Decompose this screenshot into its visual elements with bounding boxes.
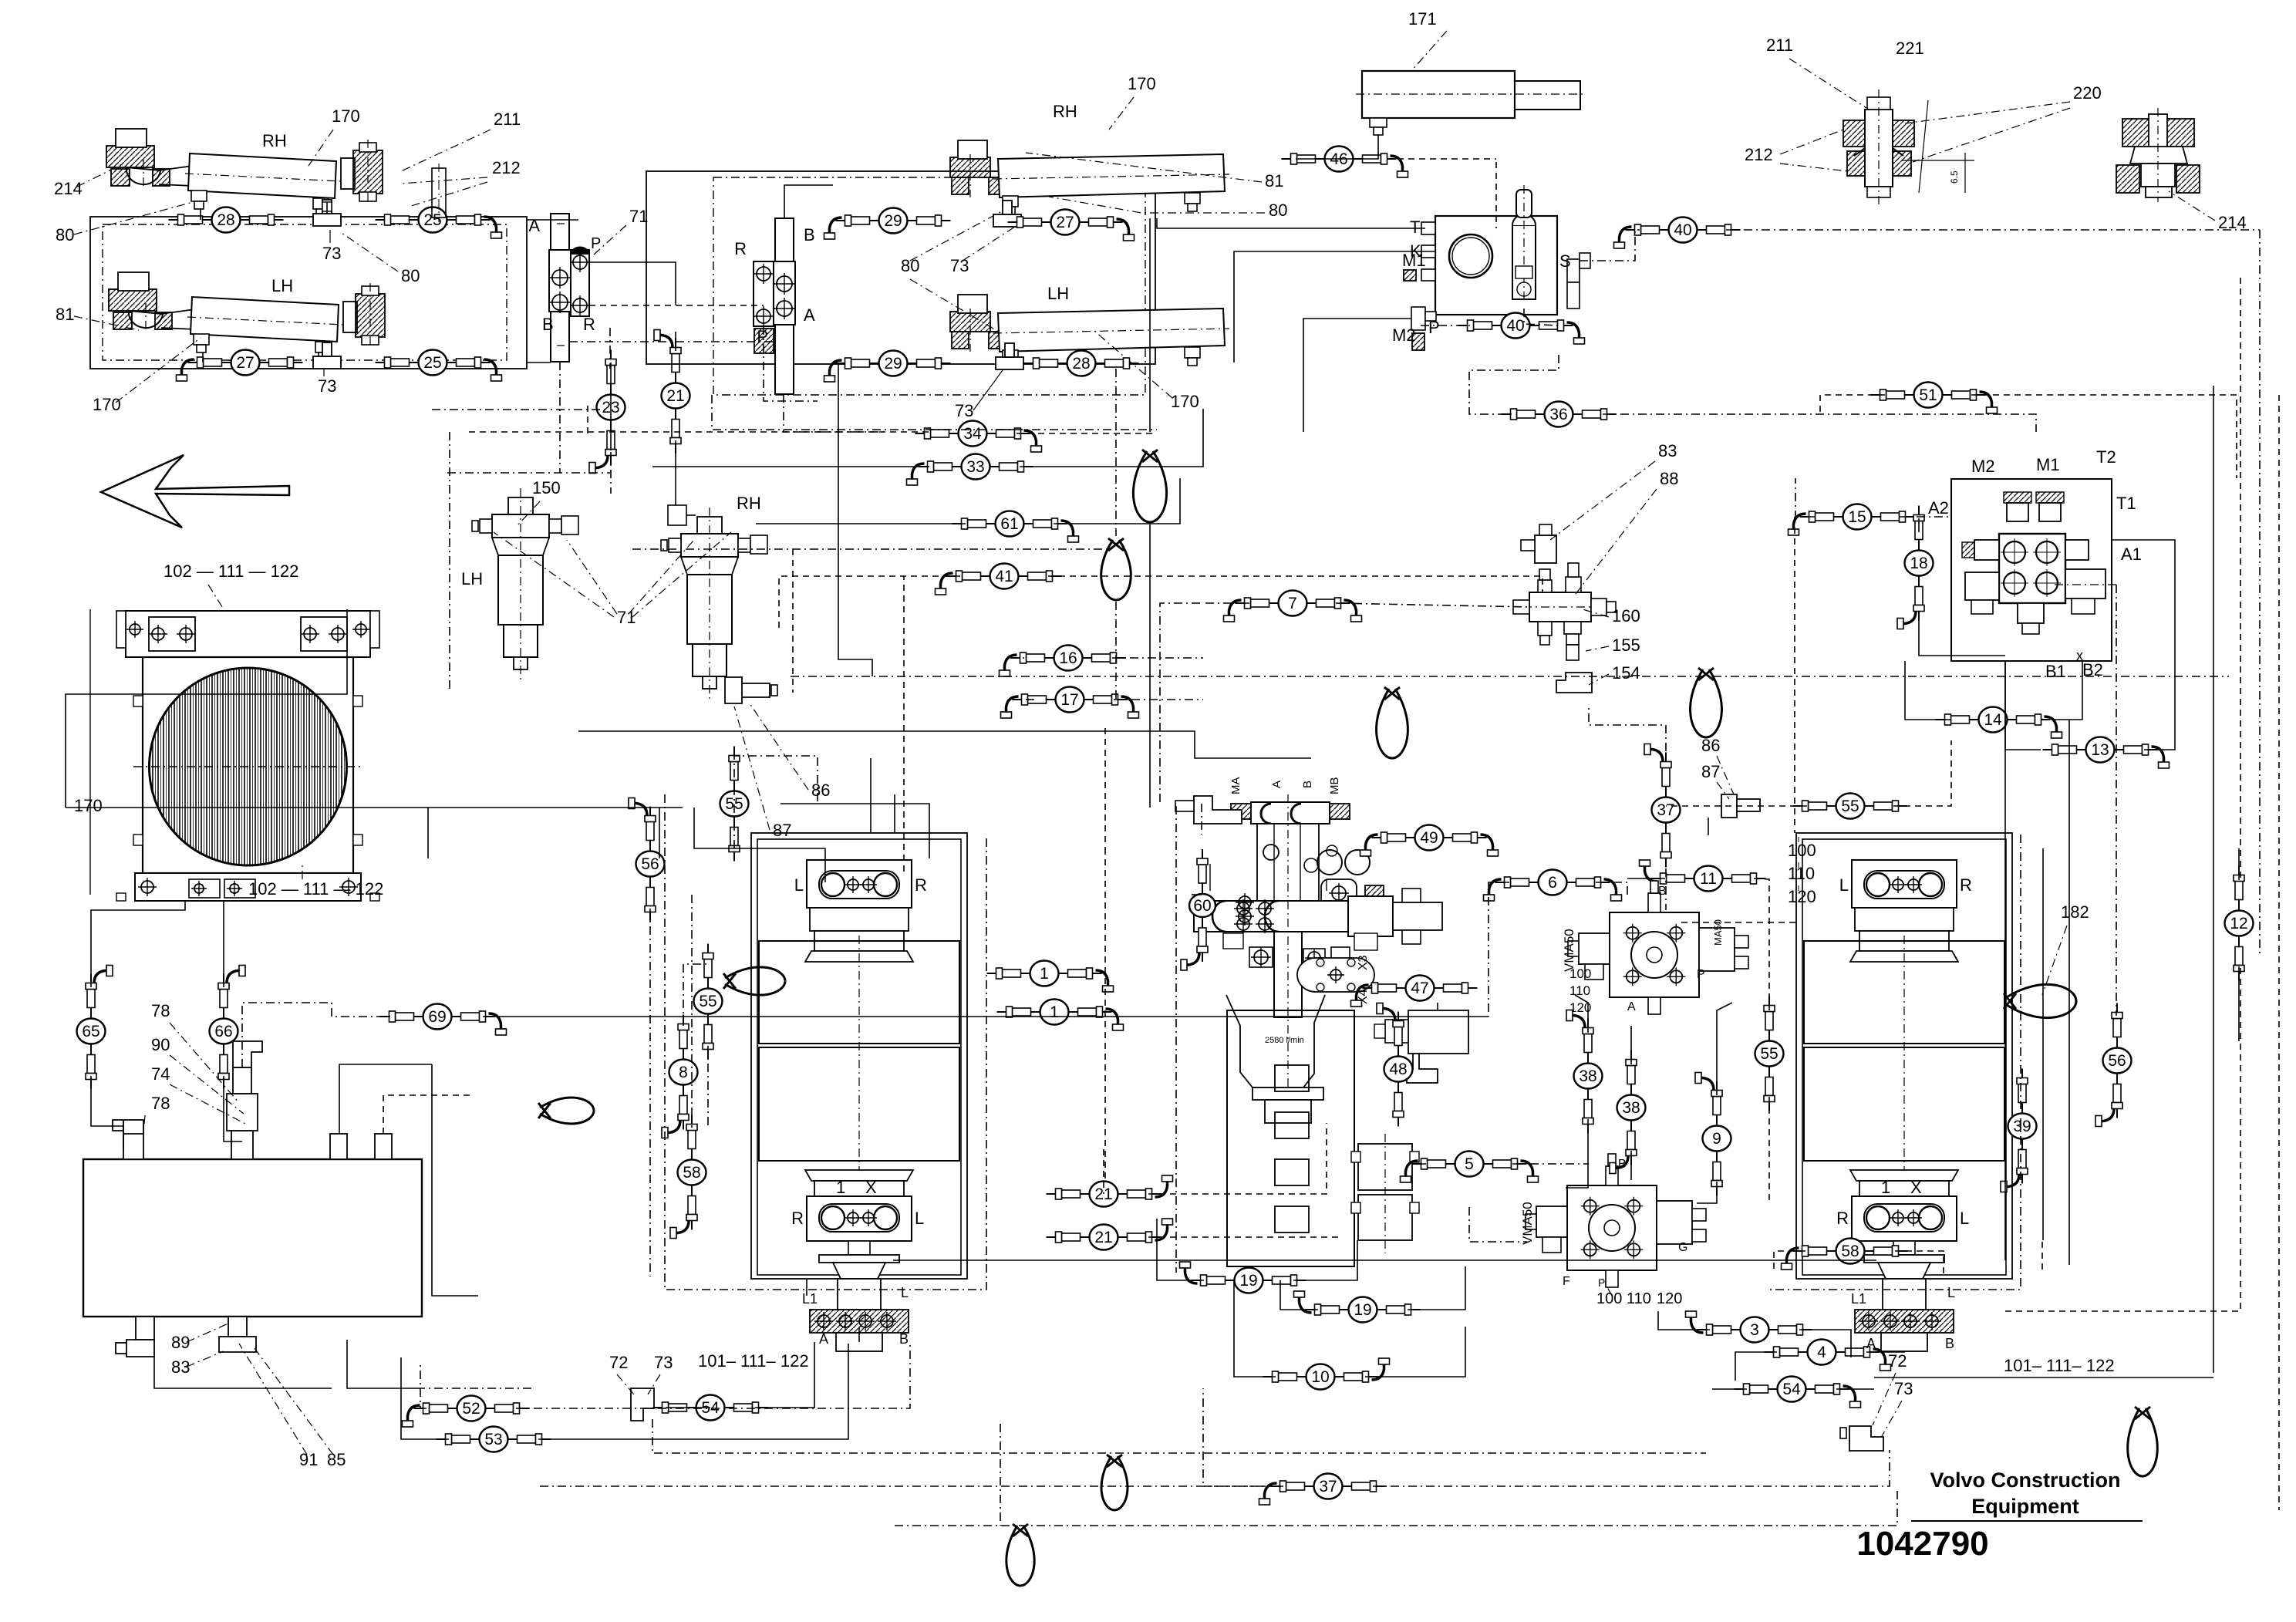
svg-text:80: 80: [56, 225, 74, 244]
svg-text:L: L: [901, 1285, 909, 1300]
hose 47: [1351, 976, 1478, 1007]
svg-text:120: 120: [1657, 1290, 1682, 1307]
svg-text:A: A: [528, 216, 540, 235]
hose 1b: [997, 1000, 1124, 1031]
hose 5: [1401, 1152, 1539, 1183]
svg-text:49: 49: [1420, 829, 1438, 847]
hose 33: [907, 454, 1033, 486]
hose 27 middle: [1008, 210, 1135, 241]
svg-text:P: P: [1428, 318, 1440, 337]
hose 49: [1360, 825, 1499, 857]
svg-text:R: R: [734, 239, 747, 258]
svg-text:21: 21: [1094, 1229, 1112, 1246]
svg-text:M2: M2: [1392, 325, 1416, 345]
svg-text:87: 87: [1701, 762, 1720, 781]
svg-text:33: 33: [966, 458, 984, 476]
svg-text:G: G: [1678, 1241, 1687, 1254]
hose 54 right: [1735, 1377, 1861, 1408]
svg-text:15: 15: [1848, 508, 1866, 526]
svg-text:58: 58: [1841, 1243, 1859, 1260]
hose 56 left: [629, 798, 665, 922]
svg-text:91: 91: [299, 1450, 318, 1469]
svg-text:1: 1: [1040, 965, 1049, 983]
svg-text:48: 48: [1389, 1061, 1407, 1078]
svg-text:21: 21: [666, 387, 684, 405]
svg-text:L: L: [1839, 875, 1849, 895]
svg-text:81: 81: [1265, 171, 1283, 191]
hose 46: [1282, 147, 1408, 178]
svg-text:155: 155: [1612, 636, 1640, 655]
hose 60: [1194, 796, 1242, 824]
svg-text:L1: L1: [1851, 1291, 1866, 1307]
svg-text:28: 28: [1072, 355, 1090, 373]
hose 6: [1484, 870, 1622, 902]
svg-text:LH: LH: [271, 276, 293, 295]
hose 34: [915, 421, 1042, 453]
svg-text:87: 87: [773, 821, 791, 840]
svg-text:18: 18: [1910, 555, 1927, 572]
hose 28 middle: [1024, 351, 1139, 376]
steering unit: [1392, 185, 1590, 350]
svg-text:VMA50: VMA50: [1562, 929, 1576, 972]
center assembly extra detail: [1239, 896, 1251, 909]
hose 53: [437, 1427, 551, 1452]
svg-text:B1: B1: [2045, 662, 2066, 681]
cable loop I: [1006, 1524, 1034, 1586]
hose 11: [1640, 860, 1766, 892]
svg-text:170: 170: [1128, 74, 1156, 93]
svg-text:T1: T1: [2116, 494, 2136, 513]
svg-text:LH: LH: [461, 569, 483, 588]
svg-text:81: 81: [56, 305, 74, 324]
svg-text:19: 19: [1239, 1272, 1257, 1290]
port stubs top-left cylinders: [200, 208, 201, 220]
svg-text:P: P: [1697, 968, 1705, 981]
VMA50 upper pump: [1568, 881, 1748, 1014]
svg-text:221: 221: [1896, 39, 1924, 58]
svg-text:100 110: 100 110: [1596, 1290, 1651, 1307]
hose 1a: [987, 961, 1114, 993]
svg-text:61: 61: [1000, 515, 1018, 533]
svg-text:4: 4: [1817, 1344, 1826, 1361]
hose 9: [1695, 1073, 1731, 1196]
hose 37 bottom: [1259, 1474, 1386, 1506]
svg-text:88: 88: [1660, 469, 1678, 488]
svg-text:110: 110: [1788, 864, 1815, 883]
svg-text:29: 29: [884, 212, 902, 230]
svg-text:73: 73: [1894, 1379, 1913, 1398]
svg-text:5: 5: [1465, 1155, 1474, 1173]
manifold 160: [1513, 524, 1616, 693]
svg-text:6.5: 6.5: [1949, 170, 1960, 184]
cable loop E: [723, 967, 785, 995]
riser left box: [432, 168, 446, 218]
center pump/transfer assembly: [1194, 777, 1468, 1267]
svg-text:100: 100: [1569, 966, 1591, 981]
svg-text:34: 34: [963, 425, 982, 443]
svg-text:13: 13: [2091, 741, 2109, 759]
svg-text:40: 40: [1674, 221, 1691, 239]
hose 12: [2225, 866, 2254, 981]
svg-text:54: 54: [1782, 1381, 1801, 1398]
hose 48: [1377, 1003, 1413, 1127]
svg-text:25: 25: [423, 354, 441, 372]
svg-text:55: 55: [1760, 1045, 1778, 1063]
hose 61: [952, 511, 1079, 543]
fitting 86/87 right: [1721, 794, 1760, 818]
svg-text:L: L: [915, 1209, 924, 1228]
VMA50 lower pump: [1526, 1154, 1706, 1287]
svg-text:6: 6: [1548, 874, 1557, 892]
svg-text:12: 12: [2230, 915, 2247, 932]
svg-text:10: 10: [1311, 1368, 1329, 1386]
svg-text:VMA50: VMA50: [1520, 1202, 1535, 1245]
cylinder RH top-left: [106, 129, 383, 217]
svg-text:86: 86: [1701, 736, 1720, 755]
svg-text:73: 73: [955, 401, 973, 420]
cylinder LH bottom-left: [109, 272, 385, 360]
svg-text:14: 14: [1984, 711, 2002, 729]
svg-text:B: B: [1945, 1336, 1954, 1351]
hose 7: [1224, 591, 1362, 622]
svg-text:R: R: [583, 315, 595, 334]
svg-text:170: 170: [74, 796, 103, 815]
svg-text:78: 78: [151, 1094, 170, 1113]
svg-text:60: 60: [1193, 897, 1211, 915]
hose 55 left: [694, 944, 723, 1059]
cable loop G: [1101, 1455, 1128, 1510]
hose 4: [1765, 1340, 1891, 1371]
svg-text:212: 212: [1745, 145, 1773, 164]
hose 8: [662, 1015, 698, 1138]
hose 19b: [1294, 1291, 1421, 1323]
hose 55 upper: [720, 747, 749, 862]
right valve bank assembly: [1796, 833, 2012, 1279]
bottom pump left bank: [810, 1279, 909, 1351]
svg-text:X: X: [1910, 1178, 1922, 1197]
middle manifold R/B/A/P: [775, 218, 794, 394]
svg-text:66: 66: [214, 1023, 232, 1040]
svg-text:S: S: [1559, 251, 1571, 271]
svg-text:102 — 111 — 122: 102 — 111 — 122: [164, 561, 298, 581]
svg-text:220: 220: [2073, 83, 2102, 103]
svg-text:36: 36: [1549, 406, 1567, 423]
svg-text:73: 73: [318, 376, 336, 396]
hose 39: [2001, 1069, 2037, 1192]
svg-text:9: 9: [1712, 1130, 1721, 1148]
svg-text:P: P: [1598, 1276, 1605, 1289]
svg-text:A2: A2: [1928, 498, 1949, 518]
svg-text:214: 214: [54, 179, 83, 198]
hose 25 top: [376, 207, 502, 239]
cable loop B: [1101, 538, 1131, 600]
svg-text:X: X: [865, 1178, 877, 1197]
svg-text:2580 l/min: 2580 l/min: [1265, 1036, 1304, 1045]
wire network: [527, 219, 578, 221]
svg-text:83: 83: [171, 1357, 190, 1377]
hose 51: [1871, 383, 1998, 414]
hose 54 left: [653, 1395, 768, 1421]
svg-text:52: 52: [462, 1400, 480, 1418]
svg-text:170: 170: [332, 106, 360, 126]
svg-text:B: B: [899, 1331, 909, 1347]
hose 21a: [1047, 1175, 1173, 1207]
filter LH: [472, 488, 578, 683]
svg-text:72: 72: [609, 1353, 628, 1372]
svg-text:101– 111– 122: 101– 111– 122: [2004, 1356, 2115, 1375]
svg-text:56: 56: [2108, 1052, 2126, 1070]
hose 21 vertical: [654, 330, 690, 454]
svg-text:F: F: [1563, 1275, 1570, 1288]
svg-text:R: R: [791, 1209, 804, 1228]
svg-text:37: 37: [1657, 801, 1674, 819]
hose 3: [1686, 1311, 1812, 1343]
svg-text:16: 16: [1059, 649, 1077, 667]
svg-text:211: 211: [494, 110, 521, 129]
hose 15: [1789, 504, 1915, 536]
hose 40 right: [1614, 218, 1741, 249]
hose 56 right: [2095, 1003, 2132, 1127]
svg-text:78: 78: [151, 1001, 170, 1020]
svg-text:58: 58: [683, 1164, 700, 1182]
svg-text:B: B: [1658, 885, 1667, 898]
svg-text:7: 7: [1288, 595, 1297, 612]
hose 13: [2043, 737, 2170, 769]
4-circle valve block: [1928, 447, 2142, 681]
svg-text:A: A: [819, 1331, 828, 1347]
svg-text:27: 27: [236, 354, 254, 372]
svg-text:47: 47: [1411, 980, 1428, 997]
hose 55 right bank: [1755, 996, 1784, 1111]
svg-text:21: 21: [1094, 1185, 1112, 1203]
svg-text:A1: A1: [2121, 545, 2142, 564]
svg-text:LH: LH: [1047, 284, 1069, 303]
svg-text:B: B: [804, 225, 815, 244]
svg-text:170: 170: [1171, 392, 1199, 411]
svg-text:211: 211: [1766, 35, 1793, 55]
svg-text:80: 80: [1269, 201, 1287, 220]
svg-text:R: R: [1836, 1209, 1849, 1228]
hose 66 vertical: [210, 966, 246, 1089]
hose 27: [313, 356, 341, 369]
svg-text:1: 1: [836, 1178, 845, 1197]
hose 19a: [1180, 1262, 1306, 1293]
svg-text:B: B: [1301, 781, 1314, 788]
svg-text:R: R: [1960, 875, 1972, 895]
svg-text:69: 69: [428, 1008, 446, 1026]
svg-text:80: 80: [901, 256, 919, 275]
cable loop F: [538, 1098, 594, 1124]
svg-text:MA50: MA50: [1712, 919, 1724, 946]
svg-text:A: A: [804, 305, 815, 325]
hose 58b: [1782, 1239, 1908, 1270]
hose 38a: [1566, 1010, 1603, 1134]
bearing detail 214: [2116, 108, 2200, 202]
svg-text:B: B: [542, 315, 554, 334]
hose 36: [1502, 402, 1617, 427]
svg-text:M1: M1: [2036, 455, 2060, 474]
svg-text:19: 19: [1354, 1301, 1371, 1319]
svg-text:M1: M1: [1402, 251, 1426, 270]
svg-text:T: T: [1410, 218, 1420, 237]
hose 14: [1936, 707, 2062, 739]
hose 65 vertical: [77, 966, 113, 1089]
svg-text:M2: M2: [1971, 457, 1995, 476]
box around middle cylinders: [646, 171, 1155, 364]
hose 37 right: [1644, 744, 1681, 868]
svg-text:Volvo Construction: Volvo Construction: [1930, 1469, 2121, 1492]
svg-text:101– 111– 122: 101– 111– 122: [698, 1351, 809, 1371]
hose 18: [1897, 506, 1934, 629]
svg-text:A: A: [1627, 1000, 1636, 1013]
hose 29 top: [993, 214, 1021, 227]
svg-text:RH: RH: [262, 131, 287, 150]
svg-text:72: 72: [1888, 1351, 1907, 1371]
svg-text:56: 56: [641, 855, 659, 873]
svg-text:85: 85: [327, 1450, 346, 1469]
svg-text:51: 51: [1919, 386, 1937, 404]
hose 21b: [1047, 1219, 1173, 1250]
hose 40 lower: [1458, 313, 1585, 345]
svg-text:MA: MA: [1229, 777, 1242, 795]
svg-text:65: 65: [82, 1023, 99, 1040]
cylinder RH middle: [950, 140, 1229, 214]
box around LH/RH steering cylinders left: [90, 217, 527, 369]
svg-text:29: 29: [884, 355, 902, 373]
hose 55 right top: [1793, 794, 1908, 819]
svg-text:80: 80: [401, 266, 420, 285]
svg-text:212: 212: [492, 158, 521, 177]
cable loop D: [1691, 668, 1722, 737]
cylinder 171: [1356, 71, 1586, 135]
svg-text:55: 55: [1841, 798, 1859, 815]
svg-text:154: 154: [1612, 663, 1640, 683]
svg-text:53: 53: [484, 1431, 502, 1448]
svg-text:37: 37: [1319, 1478, 1337, 1496]
cable loop A: [1133, 450, 1166, 522]
svg-text:L: L: [1960, 1209, 1969, 1228]
svg-text:L: L: [1947, 1285, 1955, 1300]
svg-text:71: 71: [617, 608, 636, 627]
hose 17: [1001, 687, 1139, 719]
radiator/cooler: [116, 611, 379, 901]
cable loop C: [1377, 687, 1408, 758]
svg-text:86: 86: [811, 781, 830, 800]
svg-text:160: 160: [1612, 606, 1640, 626]
svg-text:83: 83: [1658, 441, 1677, 460]
hose 28: [313, 214, 341, 226]
hose 38b: [1610, 1050, 1646, 1174]
svg-text:Equipment: Equipment: [1971, 1495, 2079, 1518]
bottom pump right bank: [1855, 1279, 1954, 1351]
hydraulic tank: [83, 1041, 422, 1357]
filter RH: [661, 508, 767, 702]
svg-text:110: 110: [1569, 983, 1590, 998]
svg-text:150: 150: [532, 478, 561, 497]
svg-text:R: R: [915, 875, 927, 895]
loop 182: [2004, 984, 2076, 1017]
svg-text:73: 73: [654, 1353, 673, 1372]
svg-text:39: 39: [2013, 1118, 2031, 1135]
hose 29 bottom: [996, 357, 1023, 369]
svg-text:L: L: [794, 875, 804, 895]
svg-text:27: 27: [1056, 214, 1074, 231]
svg-text:73: 73: [950, 256, 969, 275]
left valve bank assembly: [751, 833, 967, 1279]
svg-text:170: 170: [93, 395, 121, 414]
hose 10: [1263, 1358, 1390, 1390]
svg-text:71: 71: [629, 207, 648, 226]
hose 25 bottom: [376, 350, 502, 382]
svg-text:102 — 111 — 122: 102 — 111 — 122: [248, 879, 383, 899]
svg-text:X3: X3: [1357, 955, 1370, 970]
svg-text:41: 41: [995, 568, 1013, 585]
fitting 86/87 left: [725, 677, 770, 703]
svg-text:90: 90: [151, 1035, 170, 1054]
cable loop H: [2128, 1407, 2158, 1476]
svg-text:1: 1: [1050, 1003, 1059, 1021]
svg-text:74: 74: [151, 1064, 170, 1084]
direction arrow: [101, 455, 289, 528]
hose 41: [936, 564, 1062, 595]
hose 23 vertical: [589, 350, 625, 474]
svg-text:11: 11: [1700, 870, 1717, 888]
svg-text:89: 89: [171, 1333, 190, 1352]
svg-text:38: 38: [1579, 1067, 1596, 1085]
svg-text:A: A: [1866, 1336, 1876, 1351]
svg-text:38: 38: [1622, 1099, 1640, 1117]
svg-text:17: 17: [1060, 691, 1078, 709]
svg-text:A: A: [1270, 781, 1283, 788]
svg-text:40: 40: [1506, 317, 1524, 335]
svg-text:171: 171: [1408, 9, 1437, 29]
hose 16: [1000, 646, 1126, 677]
svg-text:RH: RH: [1053, 102, 1077, 121]
svg-text:MB: MB: [1328, 777, 1341, 795]
svg-text:73: 73: [322, 244, 341, 263]
hose 69: [380, 1004, 507, 1036]
svg-text:T2: T2: [2096, 447, 2116, 467]
svg-text:L1: L1: [802, 1291, 818, 1307]
cylinder LH middle: [950, 295, 1229, 369]
svg-text:55: 55: [699, 993, 716, 1010]
bearing detail 221: [1843, 89, 1974, 205]
hose 52: [403, 1396, 529, 1428]
svg-text:28: 28: [217, 211, 234, 229]
svg-text:1042790: 1042790: [1856, 1525, 1988, 1563]
svg-text:8: 8: [679, 1064, 688, 1081]
svg-text:1: 1: [1881, 1178, 1890, 1197]
manifold A/B left: [551, 214, 569, 362]
svg-text:RH: RH: [737, 494, 761, 513]
svg-text:3: 3: [1750, 1321, 1759, 1339]
svg-text:182: 182: [2061, 902, 2089, 922]
hose 58 left: [670, 1115, 706, 1239]
